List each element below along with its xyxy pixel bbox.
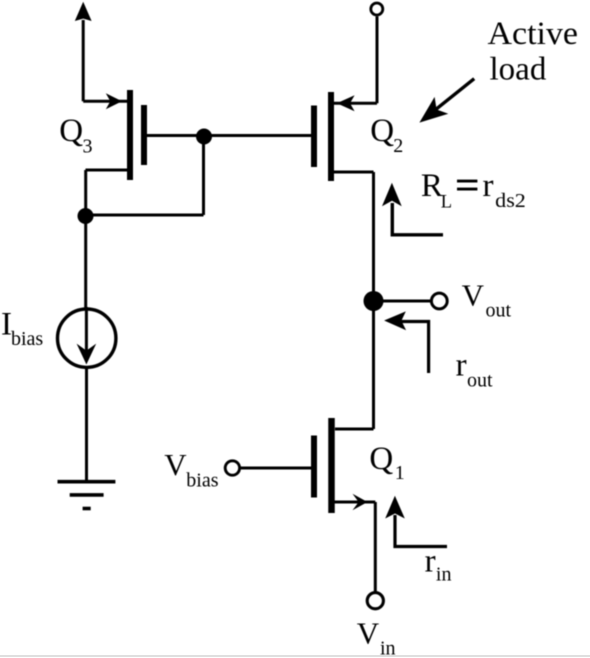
svg-text:Q: Q <box>370 113 394 149</box>
svg-text:Q: Q <box>59 113 83 149</box>
svg-text:load: load <box>490 52 547 88</box>
svg-text:bias: bias <box>11 328 43 350</box>
svg-text:L: L <box>441 192 452 212</box>
svg-text:V: V <box>462 278 485 313</box>
svg-text:r: r <box>456 348 467 384</box>
svg-text:3: 3 <box>83 136 93 158</box>
svg-text:V: V <box>164 447 187 482</box>
svg-text:r: r <box>425 543 436 579</box>
svg-text:Q: Q <box>369 441 393 477</box>
svg-text:r: r <box>483 168 494 204</box>
svg-text:ds2: ds2 <box>495 190 526 212</box>
svg-text:1: 1 <box>395 462 405 484</box>
svg-text:R: R <box>421 168 443 204</box>
svg-text:V: V <box>357 616 380 651</box>
svg-text:2: 2 <box>393 135 403 157</box>
svg-text:Active: Active <box>488 16 579 52</box>
svg-text:out: out <box>486 300 512 322</box>
svg-text:in: in <box>436 564 452 586</box>
svg-text:out: out <box>467 370 493 392</box>
svg-text:bias: bias <box>186 470 218 492</box>
svg-text:in: in <box>380 638 396 658</box>
